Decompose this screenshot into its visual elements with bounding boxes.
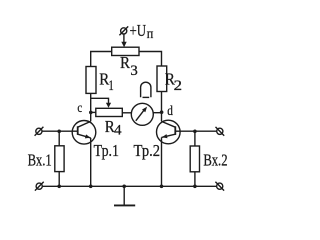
wire Vx1 top [58, 131, 60, 146]
svg-text:Тр.1: Тр.1 [94, 141, 119, 160]
svg-text:1: 1 [109, 78, 114, 94]
svg-text:Вх.2: Вх.2 [203, 150, 227, 169]
ground [114, 186, 135, 205]
bottom left terminal [35, 182, 44, 191]
resistor R3 [112, 47, 139, 55]
bottom rail [42, 185, 217, 187]
Tr2 emitter rail [161, 137, 163, 186]
node d [160, 110, 164, 114]
wire R4 to meter [122, 112, 131, 114]
node c [89, 111, 93, 115]
input 1 top terminal [35, 127, 44, 136]
label R4 [105, 117, 122, 139]
svg-text:2: 2 [174, 78, 182, 94]
wire Vx2 top [194, 131, 196, 146]
svg-text:d: d [167, 103, 173, 118]
label R2 [165, 69, 182, 94]
wire input1 to Tr1 base [42, 130, 78, 132]
meter (galvanometer) [131, 103, 153, 125]
svg-text:Тр.2: Тр.2 [134, 141, 161, 160]
resistor R2 [157, 66, 167, 92]
terminal +Un [119, 26, 128, 35]
bottom right terminal [215, 182, 224, 191]
wire R1 bottom to node c and Tr1 collector [90, 93, 92, 121]
svg-text:Вх.1: Вх.1 [28, 150, 52, 169]
wire R2 bottom to node d and Tr2 collector [161, 92, 163, 122]
svg-text:R: R [120, 53, 131, 72]
svg-text:п: п [147, 26, 154, 41]
resistor R1 [86, 67, 96, 94]
svg-text:3: 3 [130, 63, 137, 79]
label +Un [130, 21, 154, 41]
input 2 top terminal [216, 127, 225, 136]
transistor Tr1 [72, 121, 96, 145]
wire node c to R4 [91, 111, 96, 113]
wire R3 left to R1 top [91, 52, 112, 67]
svg-text:c: c [77, 100, 82, 115]
node input1 top [57, 130, 61, 134]
Tr1 emitter rail [90, 138, 92, 186]
label R1 [99, 69, 113, 94]
wire Vx1 bottom [58, 172, 60, 187]
potentiometer wiper feed wire with arrow [91, 98, 111, 108]
wire Vx2 bottom [194, 172, 196, 187]
resistor Vx2 [190, 146, 199, 172]
svg-text:4: 4 [114, 122, 122, 138]
resistor Vx1 [55, 146, 64, 172]
wire terminal to R3 with arrow [121, 34, 126, 47]
label R3 [120, 53, 138, 79]
input 2 wire Tr2 base to terminal [175, 130, 216, 132]
transistor Tr2 [157, 120, 181, 144]
potentiometer R4 [96, 108, 123, 116]
svg-text:+U: +U [130, 21, 147, 40]
wire meter to node d [153, 112, 161, 114]
node input2 top [193, 130, 197, 134]
headphone symbol [141, 82, 151, 97]
wire R3 right to R2 top [139, 52, 162, 67]
junction dots on bottom rail [57, 185, 61, 189]
